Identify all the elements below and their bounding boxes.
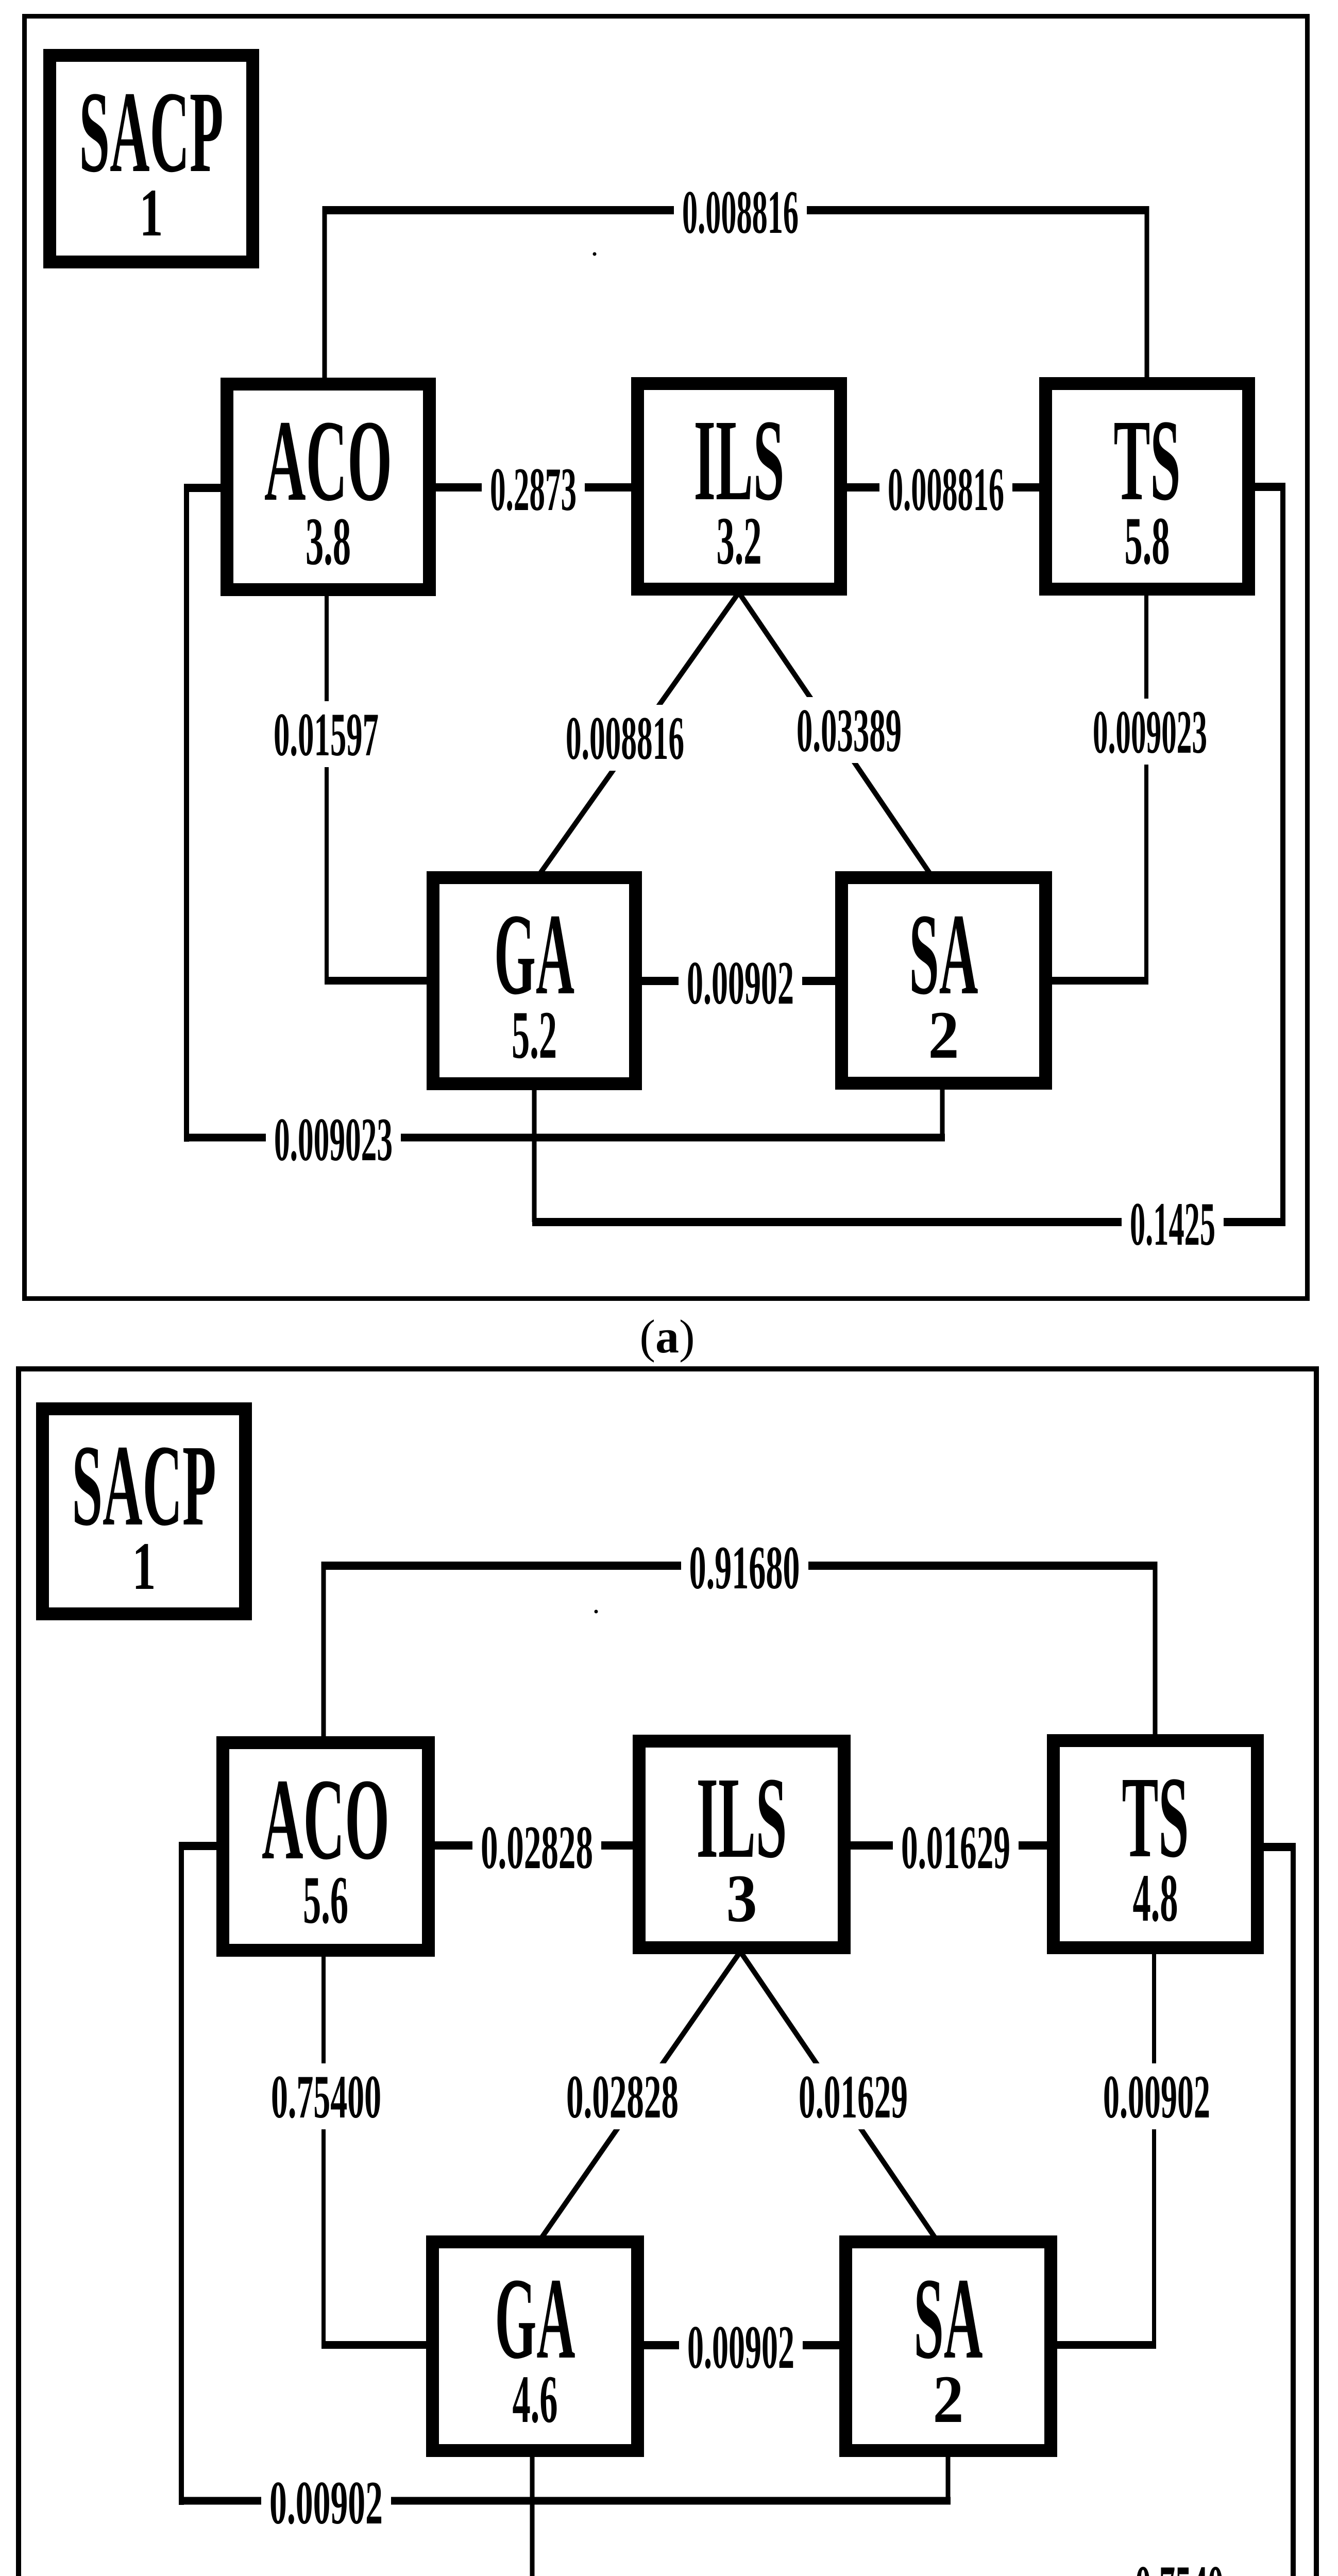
wire a: diagonal ILS-SA xyxy=(739,592,931,876)
wire a: SA bottom riser xyxy=(940,1086,945,1138)
label b ACO-ILS 0.02828 xyxy=(472,1813,601,1882)
wire b: bottom loop ACO-SA xyxy=(179,2497,951,2505)
svg-text:5.2: 5.2 xyxy=(512,997,557,1073)
label b diag 0.01629 xyxy=(791,2062,915,2131)
label b top 0.91680 xyxy=(681,1533,808,1602)
wire a: right loop vertical xyxy=(1280,483,1285,1226)
label a bottom 0.1425 xyxy=(1122,1190,1224,1258)
node SA a xyxy=(842,878,1046,1083)
svg-text:1: 1 xyxy=(140,175,163,250)
node SA b xyxy=(846,2242,1051,2451)
svg-text:0.02828: 0.02828 xyxy=(566,2062,679,2131)
label a ILS-TS 0.008816 xyxy=(879,455,1012,523)
label a ACO drop 0.01597 xyxy=(266,700,386,769)
svg-text:4.6: 4.6 xyxy=(513,2361,558,2437)
label a TS drop 0.009023 xyxy=(1086,698,1214,766)
node ILS a xyxy=(638,384,841,589)
label b diag 0.02828 xyxy=(559,2062,686,2131)
node ILS b xyxy=(639,1741,844,1948)
svg-text:0.008816: 0.008816 xyxy=(888,455,1004,523)
wire a: link ACO-ILS xyxy=(436,483,631,492)
svg-text:0.2873: 0.2873 xyxy=(490,455,577,523)
wire a: TS right stub xyxy=(1254,483,1285,491)
wire b: ACO left stub xyxy=(179,1842,217,1850)
label a diag 0.008816 xyxy=(558,704,691,772)
wire a: left loop vertical xyxy=(184,484,189,1142)
node TS a xyxy=(1046,384,1249,589)
svg-text:3.8: 3.8 xyxy=(306,503,351,579)
wire b: diagonal ILS-GA xyxy=(540,1952,740,2240)
svg-text:0.009023: 0.009023 xyxy=(1093,698,1207,766)
wire b: link GA-SA xyxy=(644,2341,839,2349)
svg-text:0.1425: 0.1425 xyxy=(1130,1190,1215,1258)
wire b: ACO top riser xyxy=(321,1562,326,1742)
wire a: bottom loop ACO-SA xyxy=(184,1134,945,1142)
svg-text:4.8: 4.8 xyxy=(1133,1860,1178,1936)
wire b: right loop vertical xyxy=(1291,1843,1296,2576)
svg-text:1: 1 xyxy=(132,1528,156,1604)
wire b: TS right stub xyxy=(1263,1843,1296,1851)
svg-text:0.75400: 0.75400 xyxy=(271,2062,381,2131)
label b TS drop 0.00902 xyxy=(1096,2062,1217,2131)
svg-text:0.01597: 0.01597 xyxy=(274,700,379,769)
svg-text:0.91680: 0.91680 xyxy=(689,1533,800,1602)
svg-text:2: 2 xyxy=(928,997,959,1073)
wire b: TS drop xyxy=(1152,1951,1156,2345)
wire a: TS top riser xyxy=(1145,206,1149,382)
svg-text:(a): (a) xyxy=(639,1310,695,1363)
node ACO a xyxy=(227,384,430,590)
svg-text:0.01629: 0.01629 xyxy=(799,2062,908,2131)
svg-text:0.008816: 0.008816 xyxy=(682,178,799,246)
wire b: top link ACO-TS xyxy=(321,1562,1157,1570)
label b GA-SA 0.00902 xyxy=(679,2313,803,2381)
wire a: GA bottom riser xyxy=(532,1087,537,1222)
label a top 0.008816 xyxy=(674,178,807,246)
panel b frame xyxy=(19,1369,1316,2576)
label a ACO-ILS 0.2873 xyxy=(482,455,585,523)
svg-text:0.009023: 0.009023 xyxy=(274,1105,393,1174)
wire a: ACO top riser xyxy=(323,206,327,384)
svg-text:0.00902: 0.00902 xyxy=(269,2468,383,2537)
wire a: TS drop to SA right xyxy=(1051,977,1148,985)
svg-text:5.6: 5.6 xyxy=(303,1862,348,1938)
wire a: TS drop xyxy=(1144,592,1148,980)
svg-text:0.00902: 0.00902 xyxy=(1103,2062,1210,2131)
svg-text:0.00902: 0.00902 xyxy=(687,2313,794,2381)
svg-text:0.02828: 0.02828 xyxy=(481,1813,593,1882)
wire a: ACO left stub xyxy=(184,484,222,492)
stray dot b xyxy=(595,1610,598,1614)
node TS b xyxy=(1054,1741,1258,1948)
svg-text:2: 2 xyxy=(933,2361,964,2437)
svg-text:0.008816: 0.008816 xyxy=(566,704,684,772)
svg-text:0.00902: 0.00902 xyxy=(687,948,794,1017)
node GA b xyxy=(433,2242,638,2451)
wire a: ACO drop to GA left xyxy=(325,977,428,985)
node SACP a xyxy=(50,56,253,262)
wire b: left loop vertical xyxy=(179,1842,184,2505)
stray dot a xyxy=(593,252,597,256)
wire b: ACO drop to GA left xyxy=(321,2341,428,2349)
node GA a xyxy=(433,878,636,1084)
wire a: link ILS-TS xyxy=(847,483,1039,492)
wire a: bottom loop GA-TS xyxy=(532,1218,1285,1226)
wire a: ACO drop xyxy=(325,592,329,980)
panel a frame xyxy=(25,16,1308,1299)
wire b: link ILS-TS xyxy=(851,1841,1047,1850)
wire b: TS drop to SA right xyxy=(1056,2341,1156,2349)
label b ILS-TS 0.01629 xyxy=(893,1813,1019,1882)
wire b: SA bottom riser xyxy=(946,2454,951,2501)
wire a: diagonal ILS-GA xyxy=(538,592,739,876)
svg-text:3.2: 3.2 xyxy=(717,503,762,579)
label b bottom 0.7540 xyxy=(1127,2553,1232,2576)
label b ACO drop 0.75400 xyxy=(264,2062,388,2131)
svg-text:0.03389: 0.03389 xyxy=(797,696,902,765)
wire b: GA bottom riser xyxy=(530,2454,535,2576)
wire b: ACO drop xyxy=(321,1952,326,2345)
wire b: TS top riser xyxy=(1153,1562,1158,1740)
wire b: link ACO-ILS xyxy=(435,1841,633,1850)
svg-text:0.7540: 0.7540 xyxy=(1135,2553,1224,2576)
label a bottom 0.009023 xyxy=(266,1105,401,1174)
wire a: top link ACO-TS xyxy=(323,206,1149,214)
wire a: link GA-SA xyxy=(641,977,835,985)
svg-text:0.01629: 0.01629 xyxy=(901,1813,1010,1882)
svg-text:3: 3 xyxy=(726,1860,757,1936)
label b bottom 0.00902 xyxy=(261,2468,391,2537)
label a GA-SA 0.00902 xyxy=(679,948,802,1017)
node SACP b xyxy=(43,1409,246,1614)
label a diag 0.03389 xyxy=(789,696,909,765)
wire b: diagonal ILS-SA xyxy=(740,1952,937,2240)
node ACO b xyxy=(223,1743,429,1951)
svg-text:5.8: 5.8 xyxy=(1125,503,1170,579)
